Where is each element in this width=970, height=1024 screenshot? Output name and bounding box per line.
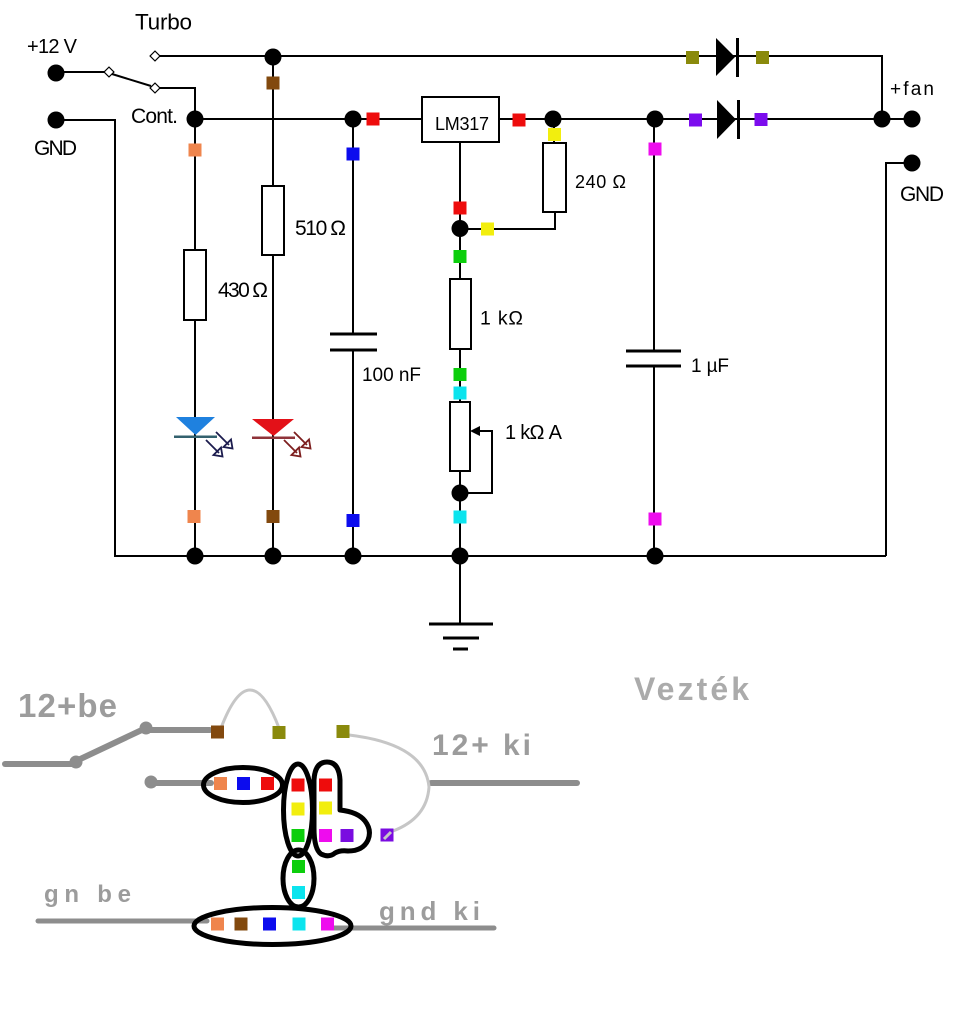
- svg-text:1 kΩ A: 1 kΩ A: [505, 422, 563, 444]
- svg-text:12+be: 12+be: [18, 687, 117, 724]
- svg-text:Vezték: Vezték: [634, 671, 749, 707]
- svg-text:12+ ki: 12+ ki: [432, 729, 531, 762]
- svg-text:GND: GND: [900, 183, 944, 206]
- svg-text:430 Ω: 430 Ω: [218, 279, 268, 302]
- svg-text:+12 V: +12 V: [27, 36, 78, 58]
- svg-text:LM317: LM317: [435, 114, 489, 134]
- svg-text:Turbo: Turbo: [135, 10, 192, 35]
- svg-text:1 kΩ: 1 kΩ: [480, 308, 523, 330]
- svg-text:Cont.: Cont.: [131, 105, 178, 128]
- svg-text:240 Ω: 240 Ω: [575, 172, 626, 192]
- svg-text:100 nF: 100 nF: [362, 365, 421, 386]
- svg-text:gn be: gn be: [44, 881, 131, 908]
- svg-text:+fan: +fan: [890, 79, 934, 100]
- svg-text:510 Ω: 510 Ω: [295, 217, 346, 240]
- svg-text:1 µF: 1 µF: [691, 356, 729, 377]
- svg-text:gnd ki: gnd ki: [379, 896, 480, 926]
- svg-text:GND: GND: [34, 137, 77, 160]
